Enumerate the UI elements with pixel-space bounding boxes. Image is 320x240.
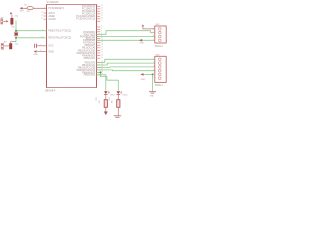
svg-text:JP2: JP2: [4, 42, 7, 44]
ground arrow LED1: [104, 112, 108, 116]
svg-text:MEGA8-P: MEGA8-P: [45, 89, 56, 92]
junction dot 4: [152, 74, 154, 76]
svg-text:VCC: VCC: [48, 45, 53, 48]
svg-text:LED1: LED1: [110, 95, 116, 97]
resistor R6: [117, 100, 120, 108]
wire W3 to SV1: [97, 39, 155, 41]
svg-text:JP1: JP1: [0, 17, 3, 19]
capacitor C2 body: [9, 43, 12, 49]
svg-text:22: 22: [41, 18, 43, 20]
LED1: [104, 91, 110, 94]
SV2 pin numbers: [153, 58, 154, 79]
svg-text:GND: GND: [141, 79, 146, 81]
svg-text:GND: GND: [33, 54, 38, 56]
wire R5 to ground: [105, 107, 107, 111]
ground flag arrow on W3: [139, 39, 142, 42]
wire W4 to SV2: [97, 59, 155, 62]
svg-text:MA06-1: MA06-1: [155, 84, 164, 87]
wire LED1 to R5: [105, 95, 107, 100]
wire W8 to LED1: [97, 72, 119, 90]
net flag arrow right: [6, 20, 8, 22]
IC1 box side edges: [47, 5, 97, 88]
crystal Q1: [14, 32, 18, 36]
junction dot 2: [15, 37, 17, 39]
svg-text:4: 4: [153, 39, 154, 41]
power VCC arrowhead: [142, 25, 144, 26]
wire C2 to crystal net: [11, 42, 16, 44]
resistor R5: [104, 100, 107, 108]
connector JP1: [1, 19, 3, 24]
resistor R1: [10, 15, 13, 26]
right pin numbers: [101, 5, 103, 76]
wire W1 to SV1: [97, 31, 155, 35]
wire SV2 pin5 to ground flag: [143, 73, 154, 75]
wire reset net: [22, 7, 46, 9]
resistor R2 oval body: [27, 7, 33, 10]
wire W5 to SV2: [97, 63, 155, 65]
wire R6 to ground: [117, 107, 119, 115]
wire XTAL1: [16, 30, 47, 32]
capacitor C3 plates: [35, 44, 37, 48]
wire from JP1: [3, 20, 6, 22]
pin names right column: [76, 5, 95, 77]
svg-text:21: 21: [41, 15, 43, 17]
svg-text:3: 3: [153, 66, 154, 68]
svg-text:GND: GND: [150, 96, 155, 98]
net flag RST arrow: [20, 7, 23, 10]
power VCC symbol: [10, 13, 12, 15]
wire W7 to SV2: [97, 69, 155, 72]
svg-text:20: 20: [41, 12, 43, 14]
svg-text:PC5(ADC5/SCL): PC5(ADC5/SCL): [76, 18, 95, 21]
pin names left column: [48, 7, 71, 53]
wire JP2 to C2: [4, 45, 10, 47]
svg-text:AGND: AGND: [48, 18, 55, 21]
wire W2 to SV1: [97, 36, 155, 38]
left pin numbers: [40, 7, 45, 52]
svg-text:2: 2: [153, 62, 154, 64]
wire W9 to LED2: [97, 75, 106, 91]
wire LED2 to R6: [117, 95, 119, 100]
ground flag arrow left: [34, 50, 37, 53]
connector SV1: [155, 26, 166, 43]
svg-text:4: 4: [153, 69, 154, 71]
svg-text:IC1 MEGA8: IC1 MEGA8: [46, 1, 59, 4]
power VCC wire to SV1 pin1: [143, 25, 155, 29]
ground symbol LED2: [114, 116, 122, 118]
svg-text:19: 19: [101, 57, 103, 59]
ground symbol SV2 branch: [149, 92, 156, 93]
SV1 pin numbers: [153, 28, 154, 41]
svg-text:1: 1: [101, 20, 102, 22]
svg-text:PB5(SCK): PB5(SCK): [84, 74, 96, 77]
svg-text:PC6(/RESET): PC6(/RESET): [48, 7, 64, 10]
wire W6 to SV2: [97, 66, 155, 69]
LED2: [117, 91, 123, 94]
svg-text:R2: R2: [24, 4, 26, 6]
svg-text:PB5(SCK): PB5(SCK): [84, 57, 96, 60]
wire C3 to VCC pin: [37, 45, 47, 47]
ground flag arrow at SV2: [140, 73, 143, 76]
svg-text:LED2: LED2: [123, 95, 129, 97]
wire crystal vertical: [15, 21, 17, 42]
svg-text:PB7(XTAL2/TOSC2): PB7(XTAL2/TOSC2): [48, 37, 71, 40]
svg-text:RST: RST: [20, 11, 25, 13]
svg-text:1: 1: [153, 28, 154, 30]
connector SV2: [155, 56, 166, 82]
svg-text:2: 2: [153, 31, 154, 33]
junction dot 3: [100, 71, 102, 73]
svg-text:GND: GND: [140, 43, 145, 45]
svg-text:PB6(XTAL1/TOSC1): PB6(XTAL1/TOSC1): [48, 30, 71, 33]
wire XTAL2: [16, 37, 47, 39]
right pin stubs: [97, 6, 101, 75]
svg-text:3: 3: [153, 35, 154, 37]
wire GND pin stub: [37, 51, 46, 53]
wire SV2 ground branch down: [152, 74, 154, 91]
junction dot 1: [15, 30, 17, 32]
IC IC1 box MEGA8-P: [47, 5, 97, 88]
connector JP2: [1, 43, 3, 49]
svg-text:6: 6: [153, 77, 154, 79]
svg-text:GND: GND: [48, 50, 54, 53]
svg-text:1: 1: [153, 58, 154, 60]
svg-text:MA04-1: MA04-1: [155, 45, 164, 48]
left pin stubs: [44, 13, 47, 19]
